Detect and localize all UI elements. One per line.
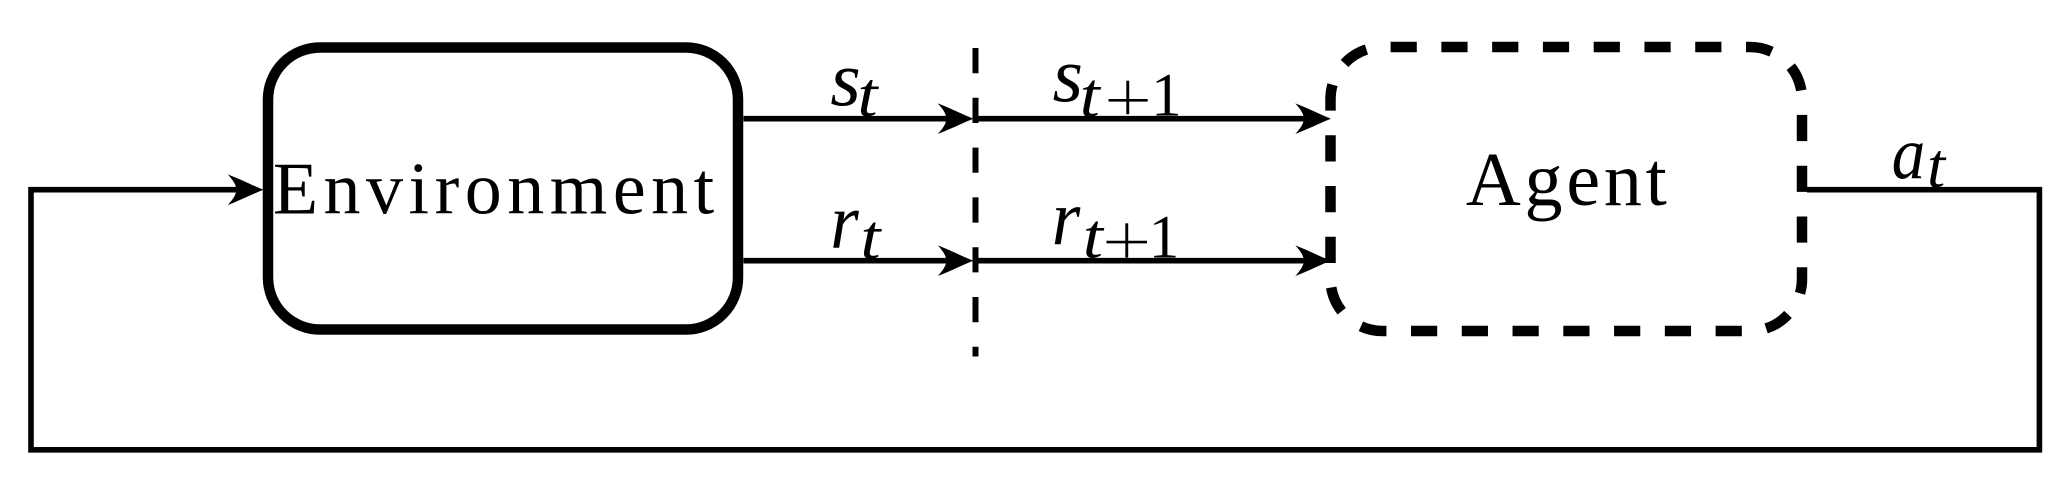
svg-text:1: 1 [1151,63,1182,130]
arrowhead r_t [938,245,974,276]
Environment box [268,48,738,330]
svg-text:s: s [1053,31,1083,118]
wire s_t [744,116,951,122]
wire r_t+1 [976,258,1311,264]
svg-text:t: t [1080,59,1102,130]
svg-text:Environment: Environment [273,149,720,231]
label r_t [830,178,883,273]
svg-text:1: 1 [1149,205,1180,272]
svg-text:t: t [1083,201,1105,272]
label s_t+1 [1053,31,1182,130]
label s_t [830,35,880,130]
label a_t [1892,113,1948,201]
dashed divider line [973,48,979,357]
svg-text:s: s [830,35,860,122]
svg-text:t: t [861,201,883,272]
svg-text:Agent: Agent [1466,138,1671,222]
feedback wire a_t loop [31,190,2039,450]
wire s_t+1 [976,116,1311,122]
Agent box (dashed) [1331,47,1803,331]
svg-text:t: t [1927,130,1947,201]
wire r_t [744,258,951,264]
arrowhead r_t+1 [1295,245,1331,276]
svg-text:r: r [830,178,859,265]
svg-text:r: r [1052,174,1081,261]
arrowhead s_t [938,103,974,134]
svg-text:a: a [1892,113,1926,195]
label r_t+1 [1052,174,1179,272]
arrowhead into Environment [228,174,264,205]
svg-text:t: t [858,59,880,130]
arrowhead s_t+1 [1295,103,1331,134]
